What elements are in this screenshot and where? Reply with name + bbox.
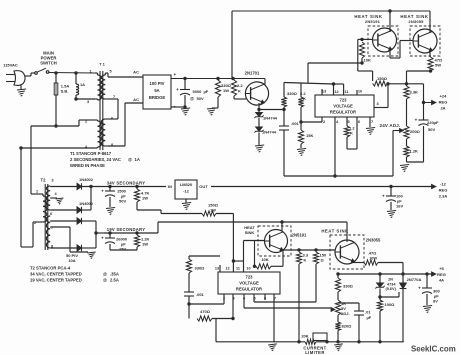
svg-text:10: 10 [246, 267, 250, 271]
svg-text:10: 10 [358, 90, 362, 94]
svg-text:@: @ [103, 278, 107, 283]
svg-text:2.5A: 2.5A [110, 278, 119, 283]
svg-text:3: 3 [87, 100, 89, 104]
svg-text:5000: 5000 [193, 89, 203, 94]
svg-text:330Ω: 330Ω [195, 266, 206, 271]
svg-text:2N3055: 2N3055 [408, 19, 424, 24]
svg-text:2: 2 [323, 120, 325, 124]
svg-text:-12: -12 [440, 182, 447, 187]
svg-text:1: 1 [89, 70, 91, 74]
svg-text:+24: +24 [440, 94, 448, 99]
svg-text:µF: µF [367, 315, 372, 320]
svg-text:7: 7 [113, 95, 115, 99]
svg-text:2: 2 [34, 221, 36, 225]
svg-text:K: K [350, 131, 353, 136]
svg-text:16V: 16V [396, 204, 403, 209]
svg-text:2N1701: 2N1701 [245, 71, 260, 76]
svg-text:T2 STANCOR PCA-4: T2 STANCOR PCA-4 [30, 266, 71, 271]
svg-text:3: 3 [376, 102, 378, 106]
svg-text:1W: 1W [223, 88, 229, 93]
svg-text:15V: 15V [119, 247, 126, 252]
svg-text:7: 7 [371, 120, 373, 124]
svg-text:K: K [304, 258, 307, 263]
svg-text:50V: 50V [428, 127, 435, 132]
svg-text:T1 STANCOR P-8617: T1 STANCOR P-8617 [70, 151, 112, 156]
svg-text:+: + [415, 118, 418, 123]
svg-text:723: 723 [340, 98, 348, 103]
svg-text:2A: 2A [440, 106, 445, 111]
svg-text:115VAC: 115VAC [3, 63, 18, 68]
svg-text:SINK: SINK [245, 230, 255, 235]
svg-text:20K: 20K [301, 334, 308, 339]
svg-text:3.3K: 3.3K [410, 90, 419, 95]
svg-text:REG: REG [437, 272, 446, 277]
svg-text:REG: REG [439, 188, 448, 193]
svg-text:5A: 5A [154, 88, 159, 93]
svg-text:11: 11 [236, 267, 240, 271]
svg-text:.001: .001 [196, 292, 205, 297]
svg-text:µF: µF [204, 89, 209, 94]
svg-text:AC: AC [133, 70, 139, 75]
svg-text:723: 723 [246, 275, 254, 280]
svg-text:34 VAC, CENTER TAPPED: 34 VAC, CENTER TAPPED [30, 272, 82, 277]
svg-text:150Ω: 150Ω [377, 76, 388, 81]
svg-text:330Ω: 330Ω [287, 91, 298, 96]
svg-text:6: 6 [50, 212, 52, 216]
svg-text:+: + [101, 189, 104, 194]
svg-text:2: 2 [85, 120, 87, 124]
svg-text:.01: .01 [365, 310, 371, 315]
svg-text:1W: 1W [142, 242, 148, 247]
svg-text:+: + [176, 87, 179, 92]
svg-text:50V: 50V [119, 199, 126, 204]
svg-text:2N770A: 2N770A [407, 277, 422, 282]
svg-text:.35A: .35A [110, 272, 119, 277]
svg-text:2N3055: 2N3055 [366, 238, 381, 243]
svg-text:330Ω: 330Ω [343, 284, 354, 289]
svg-text:@: @ [190, 96, 194, 101]
svg-text:K: K [238, 89, 241, 94]
svg-text:15K: 15K [306, 133, 313, 138]
svg-text:100Ω: 100Ω [385, 302, 396, 307]
svg-text:SWITCH: SWITCH [40, 61, 57, 66]
svg-text:1N4744: 1N4744 [263, 116, 278, 121]
svg-text:LIMITER: LIMITER [305, 350, 325, 355]
svg-text:1W: 1W [142, 196, 148, 201]
svg-text:+5: +5 [439, 266, 444, 271]
svg-text:8V: 8V [433, 299, 438, 304]
svg-text:REGULATOR: REGULATOR [236, 287, 262, 292]
svg-text:6: 6 [358, 120, 360, 124]
svg-text:LM320: LM320 [180, 182, 193, 187]
svg-text:+: + [173, 72, 176, 77]
svg-text:REG: REG [439, 100, 448, 105]
svg-text:1N4002: 1N4002 [79, 177, 94, 182]
svg-text:470Ω: 470Ω [200, 309, 211, 314]
svg-text:24V ADJ.: 24V ADJ. [380, 123, 401, 128]
svg-text:T 1: T 1 [99, 62, 106, 67]
svg-text:10W: 10W [369, 257, 377, 261]
svg-text:@: @ [128, 157, 132, 162]
svg-text:220µF: 220µF [427, 120, 439, 125]
svg-text:OUT: OUT [199, 184, 208, 189]
svg-text:(5.6V): (5.6V) [386, 287, 397, 291]
svg-text:ADJ.: ADJ. [341, 311, 350, 316]
svg-text:10A: 10A [68, 258, 75, 263]
svg-text:1: 1 [36, 190, 38, 194]
svg-text:2.3A: 2.3A [439, 194, 448, 199]
svg-text:+: + [101, 236, 104, 241]
svg-text:19 VAC, CENTER TAPPED: 19 VAC, CENTER TAPPED [30, 278, 82, 283]
svg-text:VOLTAGE: VOLTAGE [239, 281, 259, 286]
svg-text:820Ω: 820Ω [342, 324, 353, 329]
svg-text:150Ω: 150Ω [208, 203, 219, 208]
svg-text:-12: -12 [183, 189, 190, 194]
svg-text:WIRED IN PHASE: WIRED IN PHASE [70, 163, 105, 168]
svg-text:2N5191: 2N5191 [365, 19, 381, 24]
svg-text:10K: 10K [364, 58, 371, 63]
svg-text:50V: 50V [197, 96, 204, 101]
svg-text:+: + [418, 286, 421, 291]
svg-text:1A: 1A [135, 157, 140, 162]
svg-text:.001: .001 [291, 121, 300, 126]
svg-text:5: 5 [347, 120, 349, 124]
svg-text:1N4744: 1N4744 [262, 130, 277, 135]
svg-text:BRIDGE: BRIDGE [149, 95, 165, 100]
svg-text:34V SECONDARY: 34V SECONDARY [107, 181, 145, 186]
svg-text:1A: 1A [80, 82, 85, 87]
svg-text:2 SECONDARIES, 24 VAC: 2 SECONDARIES, 24 VAC [70, 157, 121, 162]
svg-text:3: 3 [51, 179, 53, 183]
svg-text:1N: 1N [388, 278, 393, 282]
svg-text:.47Ω: .47Ω [368, 251, 378, 256]
svg-text:4A: 4A [439, 278, 444, 283]
svg-text:12: 12 [334, 90, 338, 94]
svg-text:1.2K: 1.2K [410, 149, 419, 154]
svg-text:AC: AC [133, 97, 139, 102]
svg-text:IN: IN [168, 184, 172, 189]
svg-text:200Ω: 200Ω [410, 129, 421, 134]
svg-text:2.2: 2.2 [237, 83, 243, 88]
svg-text:HEAT SINK: HEAT SINK [321, 229, 349, 234]
svg-text:13: 13 [215, 267, 219, 271]
svg-text:REGULATOR: REGULATOR [330, 110, 356, 115]
svg-text:4734: 4734 [387, 283, 396, 287]
svg-text:5W: 5W [435, 63, 441, 68]
svg-text:19V SECONDARY: 19V SECONDARY [107, 227, 145, 232]
svg-text:2N5191: 2N5191 [292, 233, 307, 238]
svg-text:5: 5 [109, 70, 111, 74]
svg-text:10K: 10K [261, 257, 268, 262]
svg-text:+: + [382, 194, 385, 199]
svg-text:11: 11 [344, 90, 348, 94]
svg-text:T2: T2 [41, 178, 47, 183]
svg-text:VOLTAGE: VOLTAGE [333, 104, 353, 109]
svg-text:SeekIC.com: SeekIC.com [411, 345, 456, 354]
svg-text:100 PIV: 100 PIV [150, 81, 165, 86]
svg-text:S.B.: S.B. [61, 89, 69, 94]
svg-text:@: @ [103, 272, 107, 277]
svg-text:12: 12 [225, 267, 229, 271]
